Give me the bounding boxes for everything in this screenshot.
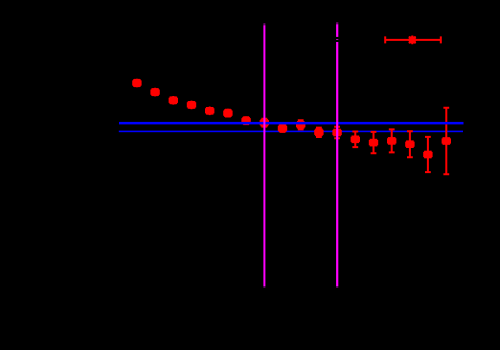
data point 3 star marker: [170, 97, 178, 105]
magenta line (left) faded bottom tip: [263, 286, 265, 288]
data point 8 star marker: [261, 119, 269, 127]
data point 6 star marker: [224, 109, 232, 117]
data point 11 error bars: [315, 128, 322, 137]
data point 10 star marker: [297, 121, 305, 129]
data point 2 star marker: [151, 88, 159, 96]
data point 11 star marker: [315, 129, 323, 137]
legend sample star marker: [409, 36, 416, 43]
data point 14 error bars: [370, 132, 377, 153]
data point 13 error bars: [352, 132, 359, 148]
black legend-text overprint gap lower: [335, 40, 341, 42]
data point 15 star marker: [388, 137, 396, 145]
data point 3 error bars: [170, 97, 177, 103]
data point 9 error bars: [279, 125, 286, 132]
data point 5 error bars: [206, 108, 213, 114]
data point 9 star marker: [279, 125, 287, 133]
blue horizontal line (thin, lower): [119, 131, 463, 133]
data point 17 error bars: [424, 137, 431, 172]
data point 18 error bars: [443, 108, 450, 175]
data point 15 error bars: [388, 129, 395, 152]
data point 10 error bars: [297, 120, 304, 129]
data point 1 star marker: [133, 79, 141, 87]
legend sample error bar: [384, 36, 441, 43]
data point 13 star marker: [352, 136, 360, 144]
data point 4 error bars: [188, 102, 195, 108]
magenta vertical line (left): [263, 25, 265, 286]
magenta line (left) faded top tip: [263, 23, 265, 25]
magenta vertical line (right): [336, 24, 338, 286]
data point 12 error bars: [333, 127, 340, 138]
data point 8 error bars: [261, 119, 268, 127]
black legend-text overprint gap upper: [335, 37, 341, 39]
data point 7 star marker: [242, 117, 250, 125]
data point 6 error bars: [224, 110, 231, 117]
data point 7 error bars: [242, 117, 249, 124]
data point 18 star marker: [443, 137, 451, 145]
data point 16 star marker: [406, 140, 414, 148]
data point 16 error bars: [406, 131, 413, 157]
magenta line (right) faded top tip: [336, 22, 338, 24]
blue horizontal line (thick, upper): [119, 122, 464, 125]
magenta line (right) faded bottom tip: [336, 286, 338, 288]
data point 2 error bars: [151, 89, 158, 95]
data point 5 star marker: [206, 107, 214, 115]
data point 17 star marker: [424, 151, 432, 159]
data point 12 star marker: [333, 129, 341, 137]
data point 14 star marker: [370, 139, 378, 147]
data point 4 star marker: [188, 101, 196, 109]
data point 1 error bars: [133, 80, 140, 86]
